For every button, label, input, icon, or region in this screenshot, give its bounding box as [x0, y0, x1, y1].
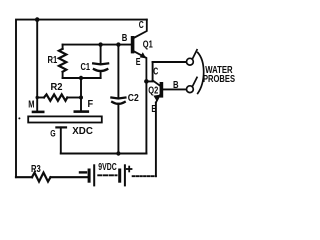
svg-text:9VDC: 9VDC — [98, 162, 116, 173]
node loop-rail junction dot — [79, 76, 83, 80]
svg-text:C: C — [139, 20, 144, 31]
svg-text:R1: R1 — [48, 55, 58, 66]
wire Q2 collector diagonal — [153, 80, 160, 85]
node M junction blob — [36, 96, 39, 99]
capacitor C1 — [93, 63, 108, 71]
svg-text:B: B — [173, 80, 179, 91]
transistor Q1 base bar — [131, 36, 135, 53]
wire dotted battery plus link — [133, 175, 156, 177]
battery long plate left — [93, 165, 95, 185]
wire R2 left lead — [37, 97, 44, 99]
probe contact top arm — [192, 50, 197, 59]
wire Q2 base to bottom probe — [163, 88, 186, 90]
svg-text:F: F — [88, 99, 94, 110]
svg-text:R2: R2 — [51, 81, 63, 93]
resistor R1 — [59, 49, 66, 72]
probe contact top circle — [187, 58, 194, 65]
wire Q2 emitter diagonal — [156, 95, 160, 102]
speck left of XDC — [18, 117, 20, 119]
probe contact bottom circle — [187, 86, 194, 93]
node C2 branch junction dot — [116, 42, 120, 46]
wire C1 bottom lead — [100, 71, 102, 78]
capacitor C2 — [111, 98, 125, 104]
wire node line down from Q1E junction — [145, 81, 147, 153]
node F junction dot — [79, 96, 83, 100]
battery short plate right — [118, 170, 121, 181]
battery long plate right — [124, 165, 126, 185]
arrow Q2 emitter PNP — [153, 95, 159, 101]
battery negative short plate — [88, 170, 91, 181]
svg-text:Q2: Q2 — [148, 86, 158, 97]
svg-text:E: E — [136, 57, 141, 68]
pad M terminal bar — [33, 111, 43, 114]
wire F branch vertical — [80, 78, 82, 111]
wire top probe line — [153, 61, 187, 63]
svg-text:XDC: XDC — [72, 125, 93, 137]
wire R1-C1 top rail — [63, 44, 131, 46]
wire C2 top lead — [117, 45, 119, 97]
svg-text:C2: C2 — [128, 93, 139, 104]
resistor R3 — [32, 173, 51, 182]
probe contact bottom arm — [192, 77, 197, 86]
wire left frame and top rail — [16, 20, 147, 178]
wire G vertical — [60, 127, 62, 153]
node C2-G junction dot — [116, 151, 120, 155]
wire bottom loop rail — [63, 77, 101, 79]
resistor R2 — [44, 94, 67, 100]
svg-text:PROBES: PROBES — [203, 74, 235, 85]
svg-text:C: C — [153, 67, 158, 78]
wire bottom rail left segment to R3 — [16, 176, 32, 178]
wire Q1 collector lead — [134, 20, 146, 38]
wire bottom return to XDC G — [61, 153, 147, 155]
svg-text:Q1: Q1 — [143, 40, 153, 51]
wire R1 top lead — [62, 45, 64, 49]
label plus sign — [127, 167, 132, 172]
wire M branch vertical — [36, 20, 38, 112]
node C1 top junction dot — [98, 42, 102, 46]
wire Q1 emitter lead — [134, 52, 146, 81]
pad G terminal bar — [56, 126, 66, 128]
svg-text:G: G — [50, 128, 55, 139]
svg-text:R3: R3 — [31, 164, 41, 175]
svg-text:M: M — [28, 100, 34, 111]
svg-text:E: E — [151, 104, 156, 115]
arrow Q1 emitter NPN — [140, 52, 147, 58]
wire R2 right lead to node F — [67, 97, 81, 99]
svg-text:B: B — [122, 33, 128, 44]
brace water probes — [198, 53, 204, 94]
wire Q2 emitter vertical to battery plus — [155, 103, 157, 177]
svg-text:C1: C1 — [81, 62, 91, 73]
wire junction to Q2 collector riser — [146, 62, 152, 81]
node Q1E-Q2C junction dot — [144, 79, 149, 84]
node A top-rail junction dot — [35, 17, 40, 22]
wire C1 top lead — [100, 45, 102, 63]
wire R3 to battery negative — [51, 176, 89, 178]
battery dashed middle — [98, 174, 116, 176]
transducer XDC body — [28, 116, 102, 122]
label minus sign — [80, 171, 86, 173]
wire R1 bottom lead — [62, 72, 64, 78]
wire C2 bottom lead — [117, 104, 119, 154]
transistor Q2 base bar — [160, 82, 164, 98]
pad F terminal bar — [75, 110, 88, 113]
